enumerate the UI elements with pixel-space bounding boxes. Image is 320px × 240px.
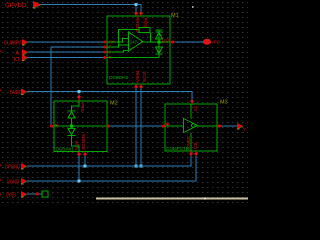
- pin M1 top2: [139, 11, 143, 16]
- resistor right drop: [150, 33, 152, 43]
- junction BVDD branch: [78, 90, 81, 93]
- svg-text:POS: POS: [143, 18, 148, 28]
- port BVDD: [10, 89, 27, 97]
- buffer U3 inside M3: [165, 104, 217, 151]
- left edge clipped text marks: [0, 51, 2, 195]
- pin M2 right: [106, 125, 110, 128]
- svg-text:LVSS: LVSS: [6, 193, 16, 199]
- pin M1 top1: [134, 11, 138, 16]
- junction green at M2 rail: [70, 125, 73, 128]
- svg-text:2WBC: 2WBC: [186, 135, 191, 149]
- bright origin dot: [192, 6, 194, 8]
- wire PVDD drop to pin T2: [140, 5, 142, 13]
- pin M3 top: [190, 99, 194, 104]
- wire A to pin3: [27, 51, 104, 53]
- feedback left vertical: [119, 30, 140, 46]
- pin M1 left2: [103, 46, 107, 49]
- junction SGND x79: [78, 180, 81, 183]
- junction at DGND x136: [135, 165, 138, 168]
- junction at DGND x141: [140, 165, 143, 168]
- output wire: [143, 41, 171, 43]
- M2 internal rail: [54, 125, 107, 127]
- diode D3 in M2: [68, 111, 76, 128]
- wire box1 bottom pin2 down to DGND: [140, 88, 142, 167]
- pin M1 right (to GPIO): [170, 41, 175, 44]
- pin M1 left1: [103, 41, 107, 44]
- svg-text:SQ9: SQ9: [74, 140, 79, 150]
- port DPGND: [5, 163, 27, 171]
- junction PVDD: [135, 3, 138, 6]
- svg-text:M1: M1: [171, 13, 179, 19]
- wire box2 bottom pin1 to SGND: [78, 156, 80, 181]
- diode D4 in M2: [68, 129, 76, 143]
- diode chain bottom link: [72, 142, 80, 152]
- svg-text:DGBDH1: DGBDH1: [109, 75, 129, 80]
- wire box2 bottom pin2 to DGND: [84, 156, 86, 166]
- bright dot on tan line: [204, 198, 206, 200]
- svg-text:A: A: [16, 51, 20, 57]
- wire PVDD horizontal: [40, 4, 142, 6]
- wire box3 output to port flag: [221, 125, 237, 127]
- wire BVDD long horizontal to box3 top pin: [27, 92, 192, 101]
- junction DGND x85: [84, 165, 87, 168]
- wire IO to pin4: [27, 57, 104, 59]
- svg-text:IO: IO: [14, 57, 20, 63]
- resistor feedback: [139, 28, 150, 33]
- node dot on LVSS wire: [35, 192, 38, 195]
- pin M1 left4: [103, 56, 107, 59]
- op-amp U inside M1: [107, 28, 170, 53]
- port IO: [14, 55, 29, 64]
- wire box2 right pin to box3 left pin: [108, 125, 163, 127]
- svg-text:9L0S: 9L0S: [142, 71, 147, 82]
- diode chain top link: [72, 101, 80, 112]
- svg-text:247: 247: [130, 40, 138, 45]
- port SGND: [7, 178, 27, 186]
- port LVSS: [6, 191, 27, 199]
- pin names left: [109, 39, 116, 60]
- box M1: [107, 16, 170, 84]
- svg-text:GB: GB: [193, 142, 198, 149]
- probe square LVSS: [42, 191, 48, 197]
- pin M1 left3: [103, 51, 107, 54]
- pin M3 left: [162, 123, 170, 128]
- wire CLAMP0 to pin1: [27, 41, 104, 43]
- wire LVSS to square: [27, 193, 42, 195]
- tan panel line bottom: [96, 198, 248, 200]
- pin4 long wire to diode bottom: [107, 57, 159, 59]
- port CLAMP0: [4, 39, 28, 47]
- pin M1 bottom2: [139, 84, 143, 89]
- port PVDD: [5, 1, 42, 9]
- svg-text:DGBA#1: DGBA#1: [56, 147, 75, 152]
- pin M3 bottom2: [194, 151, 198, 156]
- junction green at diode mid: [158, 41, 161, 44]
- wire box1 bottom pin1 down to DGND: [135, 88, 137, 167]
- svg-text:Y: Y: [243, 127, 246, 132]
- svg-text:IPO: IPO: [213, 40, 221, 45]
- port A: [16, 49, 29, 57]
- svg-text:BVDD: BVDD: [10, 90, 22, 96]
- svg-text:DPGND: DPGND: [5, 165, 20, 171]
- svg-text:2V: 2V: [193, 106, 198, 113]
- pin M3 right: [217, 125, 221, 128]
- wire DPGND horizontal then up to box3 bottom pin: [27, 156, 191, 166]
- svg-text:M3: M3: [220, 100, 228, 106]
- GPIO fat dot: [203, 39, 211, 45]
- box M2: [54, 101, 107, 152]
- svg-text:P0S: P0S: [80, 103, 85, 112]
- wire BVDD branch to box2 top pin: [78, 92, 80, 95]
- pin M1 bottom1: [134, 84, 138, 89]
- wire PVDD drop to pin T1: [135, 5, 137, 13]
- pin M2 left: [50, 124, 59, 128]
- wire box1 right pin to GPIO dot: [175, 41, 204, 43]
- port flag output right: [237, 123, 246, 132]
- diode D1 in M1: [156, 30, 163, 43]
- pin M2 top: [77, 95, 81, 101]
- pin M2 bottom1: [77, 152, 81, 157]
- pin M3 bottom1: [189, 151, 193, 156]
- svg-text:M2: M2: [110, 101, 118, 107]
- input wiring: [107, 39, 129, 43]
- diode D2 in M1: [156, 42, 163, 58]
- svg-text:CLAMP0: CLAMP0: [4, 41, 21, 47]
- wire SGND horizontal then up to box3 bottom pin2: [27, 156, 196, 181]
- svg-text:GPVDD: GPVDD: [5, 3, 26, 9]
- svg-text:SGND: SGND: [7, 180, 19, 186]
- wire node pin2 to box2 left pin: [51, 47, 104, 126]
- box M3: [165, 104, 217, 151]
- svg-text:SGND9: SGND9: [81, 134, 86, 150]
- pin M2 bottom2: [83, 152, 87, 157]
- svg-text:VO91: VO91: [135, 70, 140, 82]
